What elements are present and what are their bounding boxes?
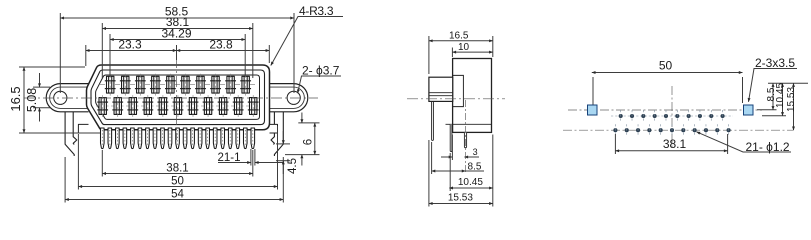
- dim 6 outer arrows: [301, 113, 303, 123]
- left mounting ear: [46, 84, 88, 112]
- svg-text:21- ϕ1.2: 21- ϕ1.2: [746, 140, 790, 154]
- holes upper row: [611, 110, 733, 122]
- svg-text:5.08: 5.08: [25, 88, 39, 112]
- svg-text:15.53: 15.53: [448, 192, 473, 203]
- shell inner outline: [96, 75, 260, 119]
- dim 23.8: [177, 50, 270, 52]
- footprint centerline row2: [563, 129, 793, 131]
- dim 10 (mid): [452, 51, 492, 53]
- flange step tab right: [270, 124, 278, 133]
- dim 10.45: [449, 187, 493, 189]
- svg-text:38.1: 38.1: [663, 137, 687, 151]
- label 4-R3.3 leader: [271, 17, 343, 66]
- dim 15.53 ext: [428, 140, 430, 207]
- right ear hole: [287, 91, 300, 104]
- dim 38.1 bottom ext: [101, 150, 103, 177]
- svg-text:8.5: 8.5: [468, 162, 482, 173]
- holes lower row: [613, 124, 730, 136]
- svg-text:38.1: 38.1: [166, 163, 188, 175]
- svg-text:54: 54: [171, 189, 184, 201]
- svg-text:50: 50: [659, 59, 673, 73]
- dim 34.29 ext: [109, 34, 111, 76]
- dim 15.53 (right): [793, 83, 795, 130]
- back pin centerline: [465, 100, 467, 174]
- svg-text:50: 50: [171, 176, 184, 188]
- dim 8.5 (right) tick: [757, 109, 777, 111]
- left ear fold line: [50, 87, 89, 108]
- dim 16.5: [23, 67, 25, 133]
- bracket tab edge line: [446, 123, 492, 125]
- front pin leg: [432, 102, 434, 140]
- row centerline top: [100, 84, 255, 86]
- svg-text:16.5: 16.5: [449, 31, 469, 42]
- svg-text:2-3x3.5: 2-3x3.5: [755, 56, 795, 70]
- label 2-phi3.7 leader: [298, 76, 341, 93]
- svg-text:4-R3.3: 4-R3.3: [299, 4, 334, 18]
- dim 16.5 ext: [19, 66, 85, 68]
- dim 21-1 ext: [250, 149, 252, 166]
- dim 58.5: [60, 17, 294, 19]
- dim 10.45 ext: [449, 153, 451, 191]
- mating shroud: [429, 77, 453, 101]
- dim 50 ext: [77, 134, 79, 190]
- dim 38.1 bottom: [102, 173, 253, 175]
- dim 50: [78, 186, 277, 188]
- dim 50 (right view): [592, 72, 743, 74]
- body rectangle: [453, 59, 492, 133]
- svg-text:34.29: 34.29: [161, 27, 191, 41]
- contacts bottom row (11): [97, 95, 258, 117]
- back pin leg: [464, 132, 466, 147]
- svg-text:10.45: 10.45: [458, 177, 483, 188]
- middle tab leg: [450, 124, 452, 151]
- dim 4.5: [282, 131, 284, 144]
- dim 8.5 left ext: [431, 142, 433, 174]
- dim 16.5 (mid) ext: [428, 36, 430, 74]
- svg-text:4.5: 4.5: [287, 158, 299, 174]
- dim 15.53: [429, 203, 493, 205]
- mounting pad left: [588, 105, 598, 115]
- dim 21-1 arrows: [218, 162, 251, 164]
- svg-text:3: 3: [473, 147, 478, 157]
- dim 38.1 (right): [615, 150, 727, 152]
- row centerline bottom: [96, 105, 258, 107]
- comb of 21 pins: [101, 128, 255, 149]
- svg-text:16.5: 16.5: [8, 86, 23, 111]
- svg-text:23.3: 23.3: [118, 38, 142, 52]
- dim 10.45 (right): [782, 83, 784, 116]
- flange step tab left: [78, 124, 88, 133]
- shell outer outline: [87, 65, 270, 130]
- dim 38.1 top: [102, 28, 253, 30]
- vertical centerline: [176, 57, 178, 140]
- right ear fold line: [269, 87, 304, 108]
- dim 5.08 ticks: [33, 86, 50, 88]
- footprint centerline row1: [568, 109, 762, 111]
- dim 38.1 (right) ext: [614, 134, 616, 154]
- pcb edge reference line: [768, 82, 808, 84]
- svg-text:2- ϕ3.7: 2- ϕ3.7: [302, 64, 340, 78]
- horizontal centerline: [24, 97, 318, 99]
- contacts top row (10): [105, 74, 251, 96]
- svg-text:6: 6: [302, 139, 314, 145]
- svg-text:21-1: 21-1: [217, 152, 240, 164]
- label 2-3x3.5 leader: [749, 69, 798, 102]
- left bracket leg: [65, 112, 74, 156]
- dim 3 ext: [451, 135, 453, 161]
- dim 54 ext: [64, 157, 66, 203]
- shroud contact lines: [429, 92, 453, 94]
- svg-text:10: 10: [458, 42, 470, 53]
- right mounting ear: [269, 84, 308, 112]
- dim 10 (mid) ext: [451, 48, 453, 58]
- dim 54: [65, 199, 283, 201]
- dim 8.5 (mid): [432, 170, 484, 172]
- dim 38.1 top ext: [101, 23, 103, 78]
- mounting pad right: [744, 105, 754, 115]
- dim 8.5 (right): [772, 83, 774, 110]
- shell mid outline: [91, 70, 265, 125]
- svg-text:10.45: 10.45: [775, 83, 786, 108]
- dim 10.45 (right) tick: [762, 115, 786, 117]
- collar outline inside body: [453, 75, 464, 106]
- dim 50 (right view) ext: [592, 77, 594, 105]
- label 21-phi1.2 leader: [697, 132, 792, 152]
- centerline: [407, 98, 505, 100]
- dim 6 ticks: [298, 122, 319, 124]
- dim 16.5 (mid): [429, 40, 493, 42]
- dim 23.3 / 23.8 ext: [85, 45, 87, 66]
- dim 3 arrows: [441, 156, 452, 158]
- left ear hole: [54, 91, 67, 104]
- dim 6 inner line: [314, 123, 316, 155]
- svg-text:15.53: 15.53: [786, 87, 797, 112]
- svg-text:23.8: 23.8: [209, 38, 233, 52]
- dim 23.3: [86, 50, 177, 52]
- dim 58.5 extension lines: [59, 13, 61, 93]
- footprint vertical centerline: [671, 86, 673, 148]
- dim 5.08: [39, 73, 41, 87]
- dim 34.29: [110, 39, 245, 41]
- right bracket leg: [274, 112, 283, 156]
